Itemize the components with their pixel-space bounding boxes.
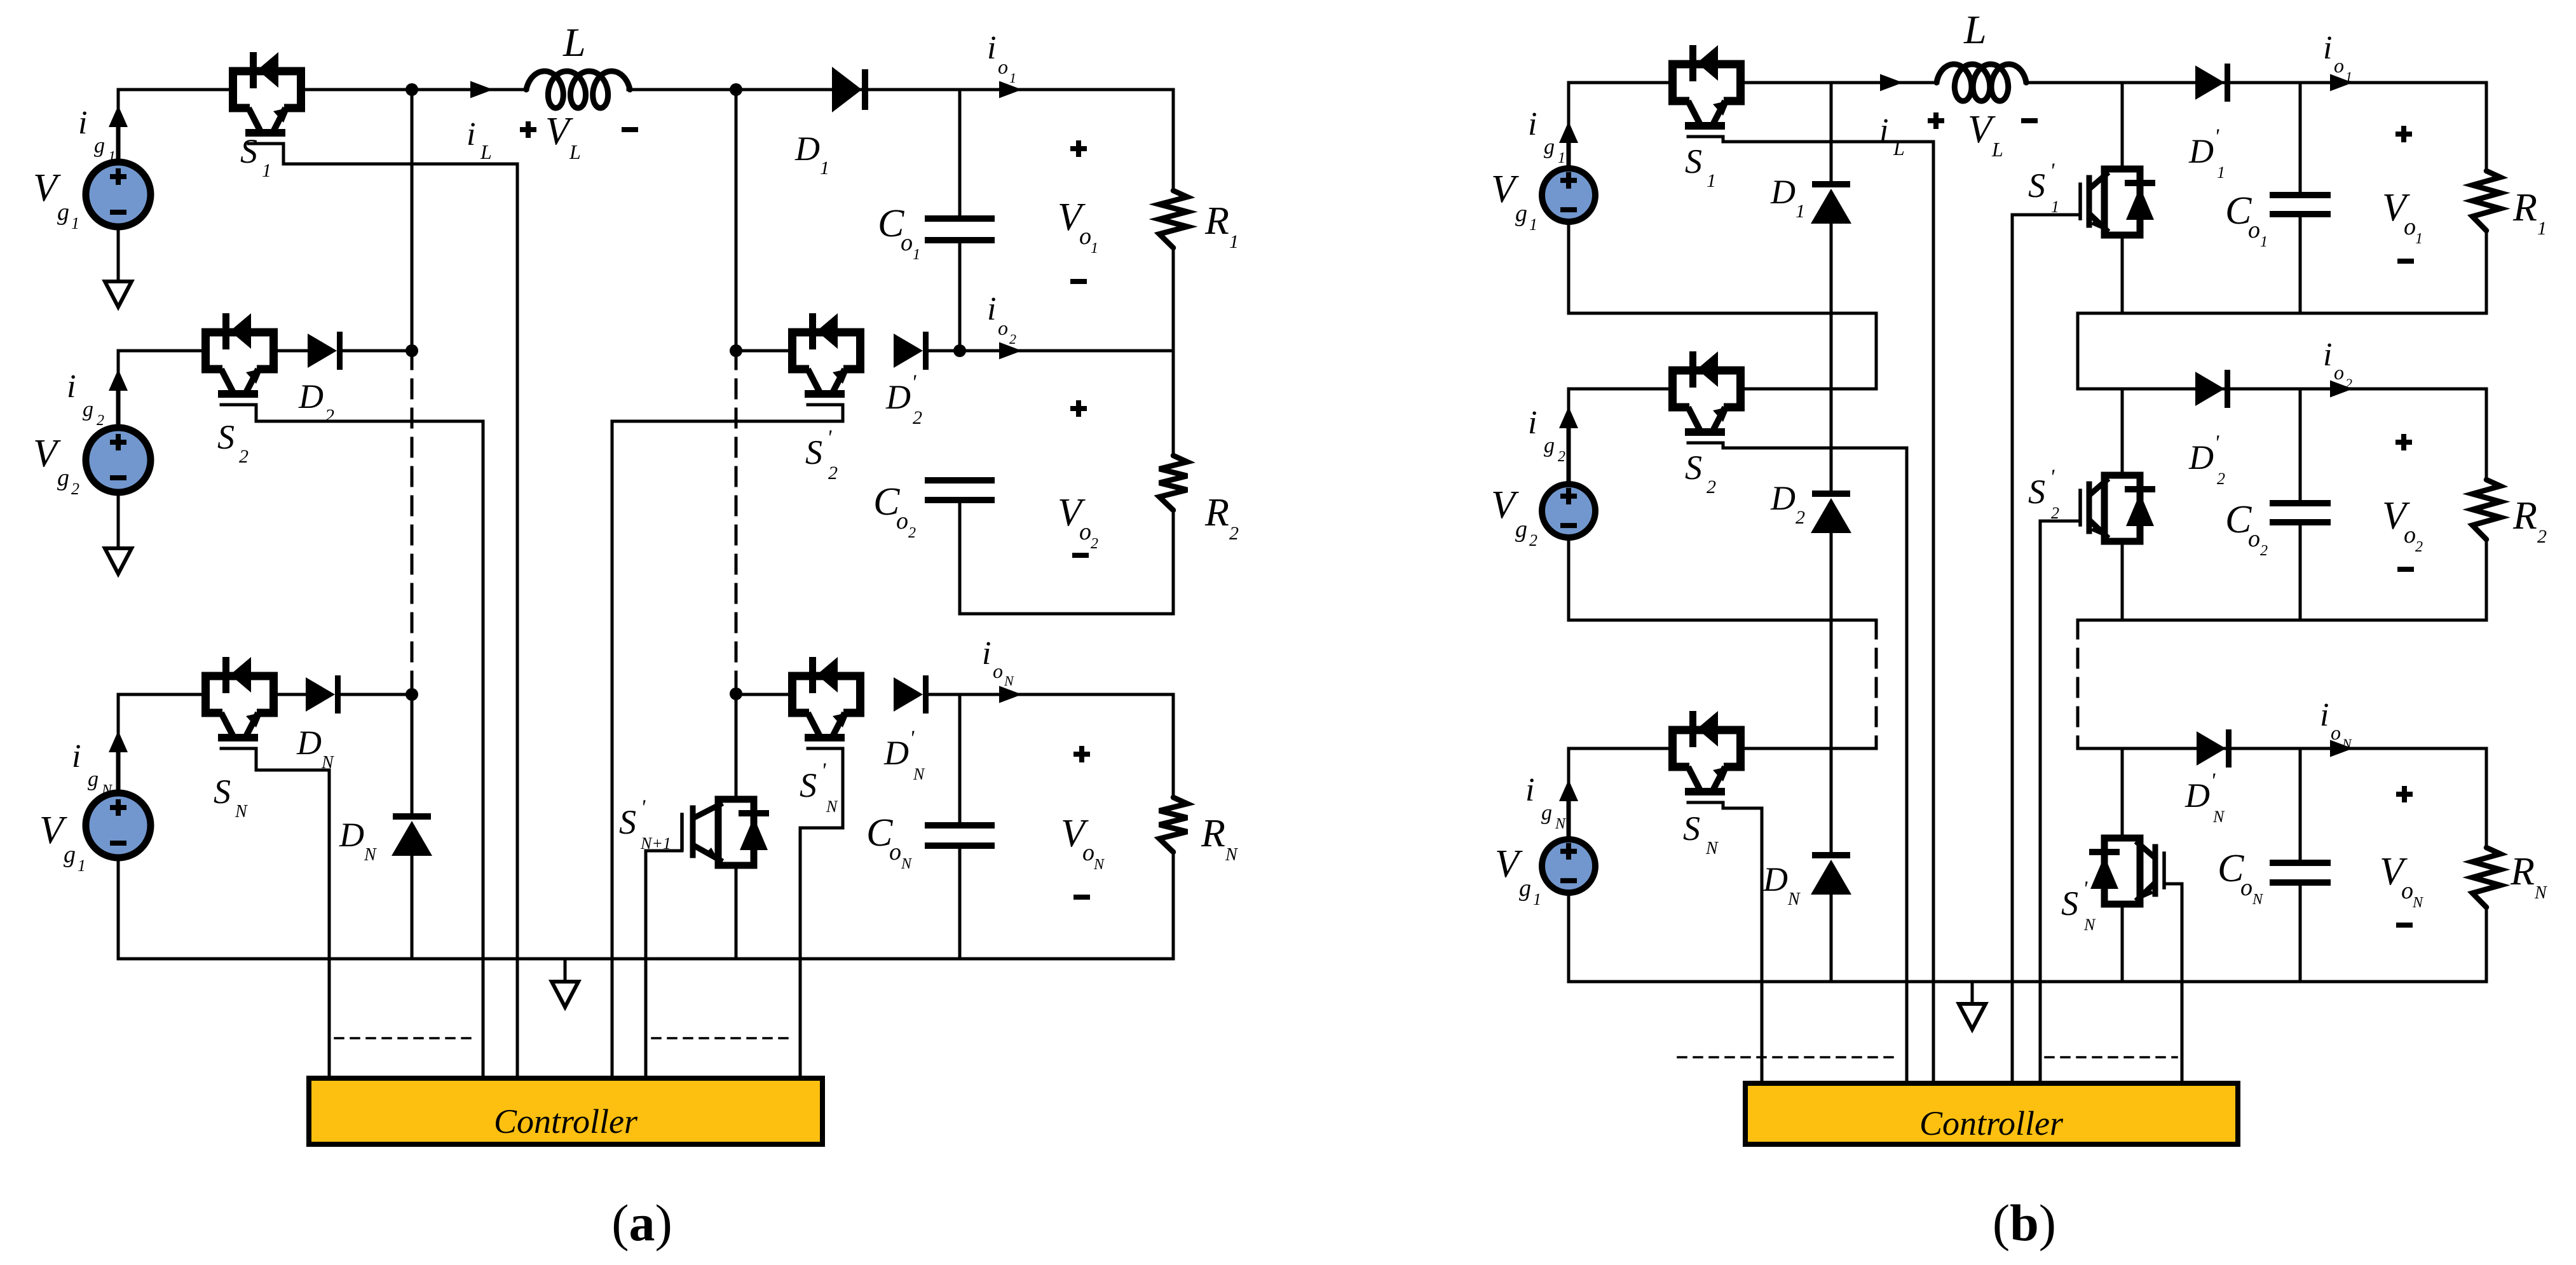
svg-text:o: o	[998, 55, 1008, 78]
svg-text:o: o	[998, 316, 1008, 339]
wire S'1 collector (b)	[2121, 83, 2124, 169]
current arrow i_L	[470, 81, 493, 98]
svg-text:N: N	[2534, 883, 2547, 903]
svg-text:g: g	[83, 398, 93, 421]
controller box (a)	[309, 1078, 822, 1144]
voltage source Vg1	[86, 162, 151, 227]
wire D2 to node A	[343, 349, 412, 353]
svg-text:L: L	[1991, 138, 2003, 161]
svg-text:S: S	[2061, 884, 2078, 923]
label VgN	[39, 809, 86, 875]
svg-text:1: 1	[913, 247, 920, 263]
label i_o1 (b)	[2323, 30, 2352, 85]
svg-text:1: 1	[1707, 170, 1716, 191]
current arrow i_o2 (b)	[2330, 381, 2353, 398]
svg-text:1: 1	[1229, 231, 1239, 252]
label Vg1 (b)	[1491, 168, 1537, 234]
wire Co1 to node io2	[958, 243, 962, 351]
resistor R2 (b)	[2472, 389, 2500, 620]
svg-text:2: 2	[908, 525, 916, 541]
current arrow i_o1	[999, 81, 1022, 98]
svg-text:ʹ: ʹ	[911, 371, 917, 395]
wire Vg2 return (b)	[1569, 538, 1876, 620]
svg-text:1: 1	[2537, 218, 2547, 239]
voltage source Vg2 (b)	[1542, 484, 1595, 538]
wire jog rail2 to rowN dashed (b)	[2076, 620, 2080, 748]
wire Co2 branch (b)	[2299, 389, 2302, 500]
caption (b)	[1993, 1194, 2056, 1252]
wire CoN to bottom rail	[958, 849, 962, 959]
svg-text:o: o	[2334, 361, 2344, 384]
label VgN (b)	[1495, 842, 1541, 909]
svg-text:1: 1	[78, 856, 86, 875]
label D'2	[885, 371, 922, 428]
wire gate lead S'N+1	[646, 851, 682, 1078]
wire Co1 bottom (b)	[2299, 217, 2302, 313]
inductor L (b)	[1937, 64, 2026, 101]
svg-text:D: D	[1770, 173, 1796, 211]
svg-text:S: S	[805, 433, 822, 471]
svg-text:1: 1	[2415, 231, 2423, 247]
wire gate lead SN (b)	[1723, 802, 1762, 1083]
svg-text:2: 2	[239, 446, 249, 467]
junction node A (top rail)	[405, 83, 418, 96]
svg-text:ʹ: ʹ	[2211, 769, 2216, 793]
capacitor Co2	[925, 480, 995, 500]
current arrow i_oN	[999, 686, 1022, 703]
wire input row 2	[118, 349, 308, 353]
label R2 (b)	[2512, 494, 2547, 547]
svg-text:D: D	[298, 377, 324, 416]
svg-text:1: 1	[1009, 70, 1016, 86]
svg-text:S: S	[800, 766, 817, 804]
wire top rail (b)	[1569, 81, 2486, 85]
voltage source Vg2	[86, 428, 151, 492]
wire io2 to R column	[960, 349, 1173, 353]
svg-text:S: S	[1683, 809, 1700, 848]
svg-text:i: i	[1879, 112, 1888, 149]
current arrow i_g2 (b)	[1559, 407, 1578, 480]
wire S'N emitter (b)	[2121, 904, 2124, 982]
svg-text:2: 2	[2260, 543, 2268, 559]
wire S'1 emitter (b)	[2121, 235, 2124, 313]
label Co2	[873, 480, 916, 541]
junction node B row N	[730, 687, 742, 700]
svg-text:L: L	[1963, 7, 1987, 52]
diode D1 (shunt) (b)	[1811, 181, 1851, 224]
svg-text:1: 1	[1796, 201, 1805, 222]
junction node A row 2	[405, 344, 418, 357]
junction node Co1/Co2 (io2)	[953, 344, 966, 357]
svg-text:S: S	[2028, 473, 2045, 511]
label Vg2	[33, 432, 79, 498]
svg-text:o: o	[2334, 54, 2344, 77]
capacitor Co1	[925, 219, 995, 240]
label R2	[1204, 491, 1239, 544]
svg-text:D: D	[296, 724, 322, 762]
label S2	[217, 418, 249, 467]
label CoN (b)	[2218, 847, 2264, 908]
wire diode chain D2-DN (b)	[1830, 531, 1833, 852]
wire gate lead SN	[256, 748, 329, 1078]
svg-text:R: R	[2512, 494, 2537, 538]
junction node B (top rail)	[730, 83, 742, 96]
label S'2 (b)	[2028, 466, 2059, 522]
svg-text:g: g	[1544, 135, 1555, 159]
ellipsis dashes right (a)	[652, 1037, 794, 1039]
svg-text:g: g	[94, 134, 105, 158]
svg-text:i: i	[2320, 697, 2329, 733]
wire input row N	[118, 693, 306, 696]
label S1	[240, 132, 271, 181]
svg-text:o: o	[889, 839, 901, 865]
IGBT switch S'2	[793, 313, 861, 405]
svg-text:1: 1	[262, 160, 271, 181]
label S'1 (b)	[2028, 159, 2059, 216]
svg-text:2: 2	[1229, 523, 1239, 544]
svg-text:g: g	[1515, 200, 1527, 227]
wire CoN bottom (b)	[2299, 886, 2302, 982]
wire output row N (b)	[2078, 747, 2486, 750]
svg-text:S: S	[2028, 166, 2045, 205]
wire gate lead S'2 (b)	[2040, 521, 2080, 1083]
wire output row 2 bottom	[960, 612, 1173, 616]
wire Co2 bottom (b)	[2299, 525, 2302, 620]
svg-text:D: D	[794, 130, 820, 168]
diode D'N (b)	[2197, 729, 2232, 768]
resistor RN (b)	[2472, 748, 2500, 982]
svg-text:L: L	[569, 140, 581, 163]
wire S'2 collector (b)	[2121, 389, 2124, 475]
svg-text:i: i	[67, 369, 76, 405]
wire node A vertical (solid)	[411, 90, 414, 351]
wire node B to S'2	[736, 349, 788, 353]
svg-text:1: 1	[1558, 150, 1565, 166]
svg-text:N: N	[2341, 736, 2352, 752]
voltage source VgN	[86, 793, 151, 858]
IGBT switch S1 (b)	[1673, 45, 1741, 137]
label S'N (b)	[2061, 877, 2096, 934]
wire node B to S'N	[736, 693, 788, 696]
wire Co2 bottom	[958, 503, 962, 614]
svg-text:S: S	[240, 132, 257, 170]
svg-text:g: g	[1544, 434, 1555, 457]
label S'2	[805, 426, 838, 484]
current arrow i_L (b)	[1880, 74, 1903, 91]
svg-text:N: N	[913, 765, 925, 783]
wire bottom rail (a)	[118, 957, 1173, 961]
svg-text:2: 2	[913, 407, 922, 428]
label L (b)	[1963, 7, 1987, 52]
wire VgN to bottom rail	[117, 858, 120, 959]
ground symbol (b)	[1959, 982, 1986, 1029]
svg-text:o: o	[1079, 223, 1091, 250]
diode D'1 (b)	[2195, 64, 2230, 102]
svg-text:D: D	[883, 734, 909, 772]
label CoN	[866, 811, 913, 872]
resistor RN	[1159, 694, 1187, 959]
label i_g1	[78, 105, 116, 165]
label + V_o1 - (b)	[2382, 126, 2423, 261]
svg-text:1: 1	[2217, 163, 2225, 182]
label i_g1 (b)	[1528, 106, 1565, 166]
svg-text:o: o	[2248, 217, 2260, 243]
wire gate lead S'N	[800, 748, 843, 1078]
svg-text:N: N	[826, 797, 838, 816]
svg-text:D: D	[2188, 132, 2214, 170]
svg-text:1: 1	[2345, 69, 2352, 85]
IGBT switch S'N+1 (vertical)	[682, 799, 769, 865]
resistor R1	[1159, 90, 1187, 351]
capacitor Co1 (b)	[2270, 195, 2331, 214]
svg-text:ʹ: ʹ	[2214, 431, 2219, 455]
wire CoN branch	[958, 694, 962, 822]
current arrow i_o2	[999, 342, 1022, 360]
svg-text:1: 1	[71, 214, 79, 233]
resistor R2	[1159, 351, 1187, 614]
svg-text:R: R	[2512, 186, 2537, 229]
wire S'2 emitter (b)	[2121, 541, 2124, 620]
ellipsis dashes left (a)	[335, 1037, 477, 1039]
label i_gN	[72, 738, 113, 799]
svg-text:L: L	[480, 140, 492, 163]
svg-text:o: o	[1079, 518, 1091, 545]
label D'1 (b)	[2188, 125, 2225, 182]
ellipsis dashes left (b)	[1678, 1056, 1897, 1059]
wire node A vertical (dashed)	[411, 351, 414, 694]
label Vg1	[33, 166, 79, 233]
label + V_oN - (b)	[2380, 786, 2424, 925]
current arrow i_oN (b)	[2330, 740, 2353, 757]
label D1 (b)	[1770, 173, 1805, 222]
svg-text:R: R	[1204, 200, 1229, 243]
wire node A to diode DN shunt	[411, 694, 414, 814]
svg-text:N: N	[1787, 890, 1801, 909]
ellipsis dashes right (b)	[2045, 1056, 2177, 1059]
svg-text:D: D	[1762, 860, 1788, 898]
label i_g2	[67, 369, 104, 429]
diode D1	[832, 67, 868, 112]
voltage source VgN (b)	[1542, 839, 1595, 893]
diode D'2	[894, 332, 929, 370]
IGBT switch S2 (b)	[1673, 351, 1741, 443]
svg-text:1: 1	[2260, 234, 2268, 250]
diode DN (shunt, freewheeling)	[392, 813, 432, 856]
ground symbol (Vg1)	[105, 281, 132, 307]
svg-text:ʹ: ʹ	[2050, 159, 2055, 183]
wire input riser Vg1 to top rail	[117, 90, 120, 159]
svg-text:N: N	[901, 856, 913, 872]
svg-text:i: i	[2323, 337, 2332, 373]
svg-text:2: 2	[1707, 477, 1716, 497]
svg-text:2: 2	[1529, 531, 1537, 550]
wire S'N+1 emitter to rail	[735, 865, 738, 959]
label Co1 (b)	[2225, 189, 2268, 250]
svg-text:N: N	[1225, 845, 1238, 865]
svg-text:N: N	[1004, 673, 1014, 689]
svg-text:2: 2	[71, 480, 79, 498]
svg-text:Controller: Controller	[494, 1102, 638, 1140]
svg-text:i: i	[1528, 405, 1537, 441]
svg-text:D: D	[1770, 479, 1796, 517]
svg-text:N: N	[2083, 916, 2096, 934]
label i_L	[467, 116, 492, 163]
current arrow i_g1 (b)	[1559, 121, 1578, 166]
svg-text:g: g	[1541, 801, 1552, 825]
svg-text:1: 1	[820, 158, 829, 179]
svg-text:2: 2	[1796, 507, 1805, 528]
IGBT switch S'1 (vertical) (b)	[2080, 169, 2155, 235]
svg-text:2: 2	[1558, 449, 1565, 465]
label D2	[298, 377, 334, 426]
svg-text:(b): (b)	[1993, 1194, 2056, 1252]
label + V_oN -	[1061, 746, 1105, 897]
caption (a)	[611, 1194, 672, 1252]
svg-text:S: S	[214, 773, 231, 811]
svg-text:ʹ: ʹ	[827, 426, 832, 450]
svg-text:N: N	[2212, 808, 2225, 826]
wire S'N collector (b)	[2121, 748, 2124, 838]
svg-text:g: g	[64, 841, 76, 868]
controller box (b)	[1745, 1083, 2238, 1144]
wire gate lead S1	[283, 144, 517, 1078]
IGBT switch S2	[206, 313, 274, 405]
svg-text:g: g	[57, 464, 69, 491]
IGBT switch S'2 (vertical) (b)	[2080, 475, 2155, 541]
svg-text:S: S	[619, 803, 636, 841]
wire gate lead S'N (b)	[2164, 884, 2182, 1083]
wire node B vertical (dashed)	[735, 351, 738, 694]
svg-text:N: N	[321, 753, 334, 773]
wire D'2 to junction	[929, 349, 960, 353]
svg-text:ʹ: ʹ	[2214, 125, 2219, 149]
diode DN (series)	[306, 675, 341, 714]
IGBT switch SN	[206, 657, 274, 748]
wire input riser Vg1 (b)	[1567, 83, 1571, 165]
label + V_o2 - (b)	[2382, 434, 2423, 569]
diode D'2 (b)	[2195, 370, 2230, 408]
svg-text:o: o	[2404, 522, 2416, 548]
IGBT switch S'N (vertical, mirrored) (b)	[2089, 838, 2164, 904]
svg-text:o: o	[1082, 839, 1094, 866]
svg-text:i: i	[982, 635, 991, 672]
svg-text:i: i	[987, 291, 996, 327]
resistor R1 (b)	[2472, 83, 2500, 313]
diode DN (shunt) (b)	[1811, 852, 1851, 895]
label D2 (b)	[1770, 479, 1805, 528]
wire Co1 branch from top rail	[958, 90, 962, 215]
svg-text:1: 1	[1529, 215, 1537, 234]
svg-text:2: 2	[2345, 375, 2352, 391]
wire gate lead S'2	[612, 405, 843, 1078]
wire DN shunt to bottom rail	[411, 854, 414, 959]
junction node A row N	[405, 688, 418, 701]
svg-text:N: N	[1555, 816, 1567, 832]
label Vg2 (b)	[1491, 484, 1537, 550]
wire gate lead S2 (b)	[1723, 443, 1907, 1083]
svg-text:1: 1	[1533, 890, 1541, 909]
svg-text:S: S	[1685, 449, 1702, 487]
svg-text:2: 2	[2217, 470, 2225, 488]
label S2 (b)	[1685, 449, 1716, 497]
svg-text:S: S	[217, 418, 235, 456]
label L	[562, 20, 586, 65]
svg-text:(a): (a)	[611, 1194, 672, 1252]
svg-text:g: g	[1519, 875, 1531, 902]
svg-text:2: 2	[1009, 331, 1016, 347]
wire diode chain top (b)	[1830, 83, 1833, 182]
label + V_o2 -	[1058, 400, 1098, 555]
svg-text:i: i	[1528, 106, 1537, 142]
wire S'N+1 collector	[735, 694, 738, 799]
svg-text:ʹ: ʹ	[821, 759, 826, 783]
wire bottom rail (b)	[1569, 980, 2486, 984]
wire output rail 2 (b)	[2078, 619, 2486, 622]
svg-text:D: D	[2184, 776, 2210, 815]
label D'N	[883, 727, 925, 783]
svg-text:g: g	[88, 768, 99, 791]
label + V_L -	[520, 110, 638, 163]
wire diode chain D1-D2 (b)	[1830, 222, 1833, 491]
svg-text:N: N	[2252, 891, 2264, 908]
voltage source Vg1 (b)	[1542, 168, 1595, 222]
label S1 (b)	[1685, 142, 1716, 191]
svg-text:N: N	[1093, 856, 1105, 873]
wire Vg1 to ground	[117, 227, 120, 281]
label R1	[1204, 200, 1239, 252]
svg-text:g: g	[57, 199, 69, 226]
wire gate lead S'1 (b)	[2012, 215, 2080, 1083]
svg-text:o: o	[901, 229, 913, 256]
wire CoN branch (b)	[2299, 748, 2302, 860]
wire input riser VgN (b)	[1567, 748, 1571, 836]
wire input row 2 (b)	[1569, 388, 1876, 391]
junction node B row 2	[730, 344, 742, 357]
label RN	[1201, 812, 1238, 865]
wire node B vertical (solid)	[735, 90, 738, 351]
capacitor CoN (b)	[2270, 863, 2331, 883]
svg-text:o: o	[2404, 213, 2416, 240]
label + V_o1 -	[1058, 140, 1098, 281]
wire ioN to RN column	[960, 693, 1173, 696]
svg-text:i: i	[467, 116, 475, 152]
diode D2 (shunt) (b)	[1811, 490, 1851, 533]
svg-text:Controller: Controller	[1919, 1104, 2064, 1142]
svg-text:o: o	[2331, 721, 2341, 744]
wire output row 2 (b)	[2078, 388, 2486, 391]
wire input riser VgN	[117, 694, 120, 790]
svg-text:o: o	[896, 508, 908, 534]
svg-text:R: R	[2510, 850, 2535, 893]
label S'N	[800, 759, 838, 816]
svg-text:L: L	[562, 20, 586, 65]
wire Co1 branch (b)	[2299, 83, 2302, 192]
label Co1	[878, 202, 920, 263]
current arrow i_g1	[109, 105, 128, 159]
diode D2	[308, 332, 343, 370]
label SN (b)	[1683, 809, 1719, 858]
capacitor CoN	[925, 825, 995, 846]
svg-text:i: i	[72, 738, 81, 775]
label i_o2 (b)	[2323, 337, 2352, 391]
svg-text:S: S	[1685, 142, 1702, 180]
current arrow i_gN (b)	[1559, 780, 1578, 834]
wire input riser Vg2	[117, 351, 120, 424]
svg-text:R: R	[1204, 491, 1229, 534]
svg-text:D: D	[885, 378, 911, 416]
wire DN to node A	[341, 693, 412, 696]
svg-text:D: D	[339, 816, 364, 854]
